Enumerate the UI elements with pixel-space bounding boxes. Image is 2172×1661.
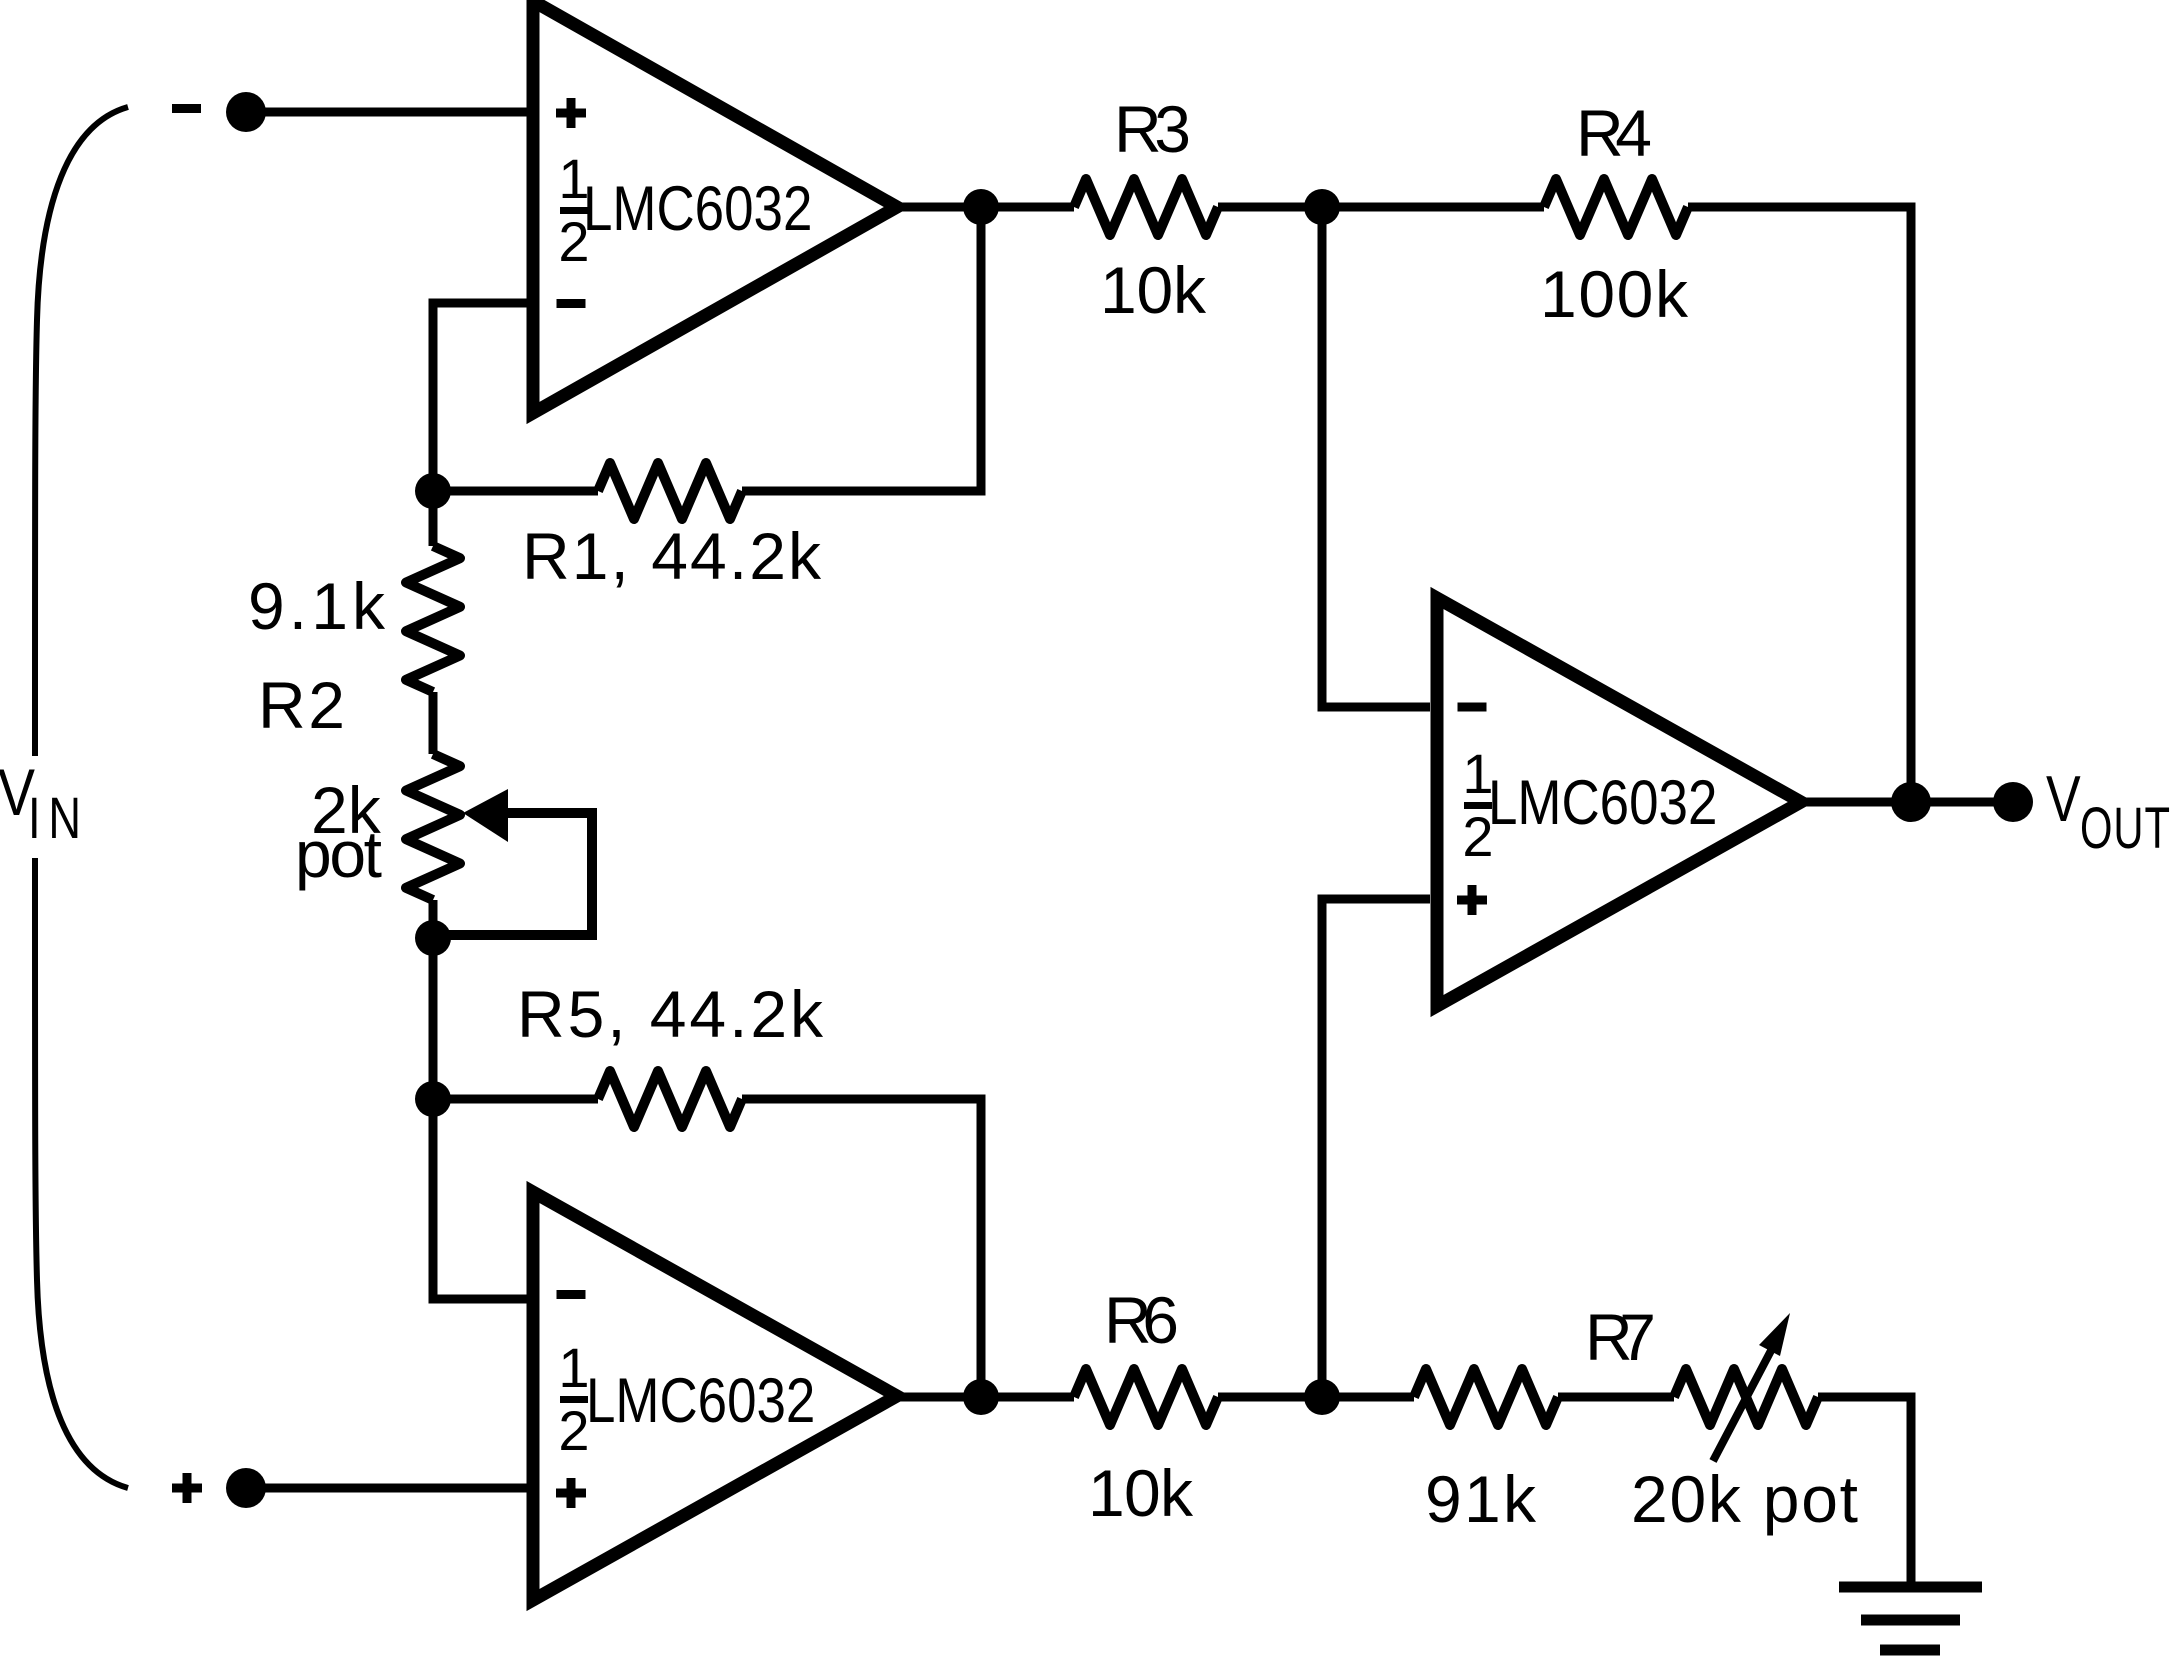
node VOUT terminal	[1993, 782, 2033, 822]
wire VIN- to U1 + input	[246, 108, 533, 117]
node U2 output	[963, 1379, 999, 1415]
svg-text:100k: 100k	[1540, 257, 1689, 331]
node U3 output/feedback junction	[1891, 782, 1931, 822]
node C: R2/R5/U2- junction	[415, 1081, 451, 1117]
VIN brace top half	[35, 107, 128, 756]
ground	[1839, 1582, 1982, 1593]
svg-text:IN: IN	[28, 787, 81, 852]
resistor R2 9.1k section	[429, 491, 438, 546]
wire VIN+ to U2 + input	[246, 1484, 533, 1493]
node D: R6/R7/U3+ junction	[1304, 1379, 1340, 1415]
wire U1 output row	[897, 203, 1074, 212]
op-amp U1 1/2 LMC6032	[533, 1, 897, 413]
node pot bottom / wiper return	[415, 920, 451, 956]
svg-text:R7: R7	[1585, 1300, 1656, 1374]
U2 + input sign	[556, 1489, 586, 1498]
U3 + input sign	[1457, 896, 1487, 905]
wire U1 - input feedback	[433, 303, 533, 491]
U1 LMC6032 label	[583, 174, 812, 244]
svg-text:R5, 44.2k: R5, 44.2k	[517, 977, 824, 1051]
wire R7 to ground	[1818, 1397, 1911, 1583]
svg-text:LMC6032: LMC6032	[1488, 768, 1717, 838]
svg-text:10k: 10k	[1088, 1456, 1194, 1530]
svg-text:pot: pot	[295, 817, 382, 891]
svg-text:LMC6032: LMC6032	[586, 1366, 815, 1436]
U3 LMC6032 label	[1488, 768, 1717, 838]
node B: R3/R4/U3- junction	[1304, 189, 1340, 225]
svg-text:2: 2	[558, 1399, 589, 1462]
U2 - input sign	[557, 1290, 586, 1299]
svg-text:10k: 10k	[1100, 253, 1207, 327]
U3 - input sign	[1458, 703, 1487, 712]
resistor R1 44.2k	[433, 487, 598, 496]
wire U3 + input	[1322, 899, 1430, 1397]
resistor R2 2k pot section	[429, 692, 438, 754]
VIN - polarity sign	[172, 104, 201, 113]
R7 pot arrow	[1713, 1343, 1775, 1461]
resistor R6 10k	[1074, 1369, 1218, 1425]
resistor R4 100k	[1544, 179, 1688, 235]
op-amp U2 1/2 LMC6032	[533, 1192, 897, 1600]
svg-text:R6: R6	[1104, 1283, 1179, 1357]
U2 LMC6032 label	[586, 1366, 815, 1436]
resistor R7 91k section	[1414, 1369, 1558, 1425]
svg-text:R3: R3	[1114, 92, 1191, 166]
resistor R5 44.2k	[433, 1095, 598, 1104]
wire U2 output row	[897, 1393, 1074, 1402]
wire pot bottom to U2 - input	[433, 900, 533, 1299]
svg-text:1: 1	[558, 1336, 589, 1399]
resistor R7 20k pot section	[1674, 1369, 1818, 1425]
svg-text:LMC6032: LMC6032	[583, 174, 812, 244]
wire R4 to U3 output feedback	[1688, 207, 1911, 802]
svg-text:R1, 44.2k: R1, 44.2k	[522, 519, 822, 593]
wire U3 output row	[1801, 798, 2013, 807]
pot wiper arrow	[463, 789, 508, 842]
svg-text:R2: R2	[258, 668, 345, 742]
svg-text:9.1k: 9.1k	[248, 569, 386, 643]
label VOUT	[2046, 764, 2081, 836]
node VIN+ terminal	[226, 1468, 266, 1508]
resistor R3 10k	[1074, 179, 1218, 235]
VIN + polarity sign	[172, 1484, 202, 1493]
U1 - input sign	[557, 299, 586, 308]
op-amp U3 1/2 LMC6032	[1437, 598, 1801, 1006]
svg-text:OUT: OUT	[2080, 795, 2170, 860]
U1 + input sign	[556, 109, 586, 118]
label VIN	[0, 755, 35, 829]
VIN brace bottom half	[35, 858, 128, 1488]
node VIN- terminal	[226, 92, 266, 132]
node A: R1/R2/U1- junction	[415, 473, 451, 509]
wire U3 - input	[1322, 207, 1430, 707]
svg-text:R4: R4	[1576, 96, 1652, 170]
svg-text:V: V	[2046, 764, 2081, 836]
node U1 output	[963, 189, 999, 225]
svg-text:20k pot: 20k pot	[1631, 1462, 1858, 1536]
svg-text:91k: 91k	[1425, 1462, 1537, 1536]
